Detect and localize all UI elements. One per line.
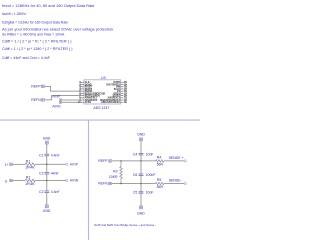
wire REFN row to C5 [140, 184, 142, 192]
port SENSE + [169, 156, 187, 162]
pin 12 [121, 99, 124, 101]
pin 5 [81, 90, 84, 92]
capacitor C6 [133, 173, 156, 177]
pin 8 [81, 97, 84, 99]
pin 10 [81, 101, 84, 103]
svg-text:U3: U3 [101, 76, 106, 80]
svg-text:10KR: 10KR [109, 175, 118, 179]
pin 17 [121, 88, 124, 90]
wire 3- to R2 [13, 180, 26, 182]
pin 7 [81, 95, 84, 97]
svg-text:10nF: 10nF [146, 153, 154, 157]
capacitor C5 [133, 191, 154, 195]
capacitor C2 [39, 190, 60, 194]
IC right pins [100, 82, 127, 105]
port REFP (bottom) [98, 159, 111, 163]
svg-text:fmod = 128KHz for 40, 80 and 1: fmod = 128KHz for 40, 80 and 160 Output … [2, 4, 95, 8]
wire C3 to row2 [46, 174, 48, 181]
wire 1+ to R1 [13, 163, 26, 165]
svg-text:1+: 1+ [5, 163, 9, 167]
divider vertical [88, 120, 90, 240]
resistor R2 [25, 176, 36, 186]
resistor R4 [156, 156, 164, 167]
svg-text:AINN: AINN [52, 104, 61, 108]
capacitor C4 [133, 153, 154, 157]
svg-text:AINP: AINP [52, 94, 61, 98]
port 3- [5, 179, 13, 183]
junction REFN/R3 [120, 183, 122, 185]
wire C5 to gnd [140, 193, 142, 206]
port REFN (top) [31, 98, 44, 102]
svg-text:GND: GND [43, 137, 51, 141]
svg-text:AINP: AINP [70, 162, 79, 166]
wire C6 to REFN row [140, 175, 142, 183]
wire R4 to SENSE+ [164, 160, 184, 162]
wire REFP to pin 5 [45, 86, 82, 91]
pin 16 [121, 90, 124, 92]
port AINP (circle) [66, 162, 79, 166]
svg-text:fcutoff = 1.28KHz: fcutoff = 1.28KHz [2, 12, 26, 16]
wire R5 to SENSE- [164, 183, 184, 185]
svg-text:AVSS: AVSS [85, 101, 92, 104]
wire AINN to pin 10 [62, 101, 81, 103]
wire REFP row [112, 160, 156, 162]
svg-text:REFP: REFP [31, 85, 41, 89]
wire REFN row [112, 183, 156, 185]
wire C2 to gnd [46, 193, 48, 205]
pin 18 [121, 86, 124, 88]
svg-text:GND: GND [43, 209, 51, 213]
capacitor C1 [39, 153, 60, 157]
port AINN (circle) [66, 179, 79, 183]
pin 20 [121, 81, 124, 83]
svg-text:56R: 56R [157, 162, 164, 166]
pin 2 [81, 84, 84, 86]
resistor R1 [25, 160, 36, 170]
port SENSE - [169, 178, 187, 184]
pin 6 [81, 92, 84, 94]
svg-text:R3: R3 [113, 169, 118, 173]
svg-text:R4: R4 [157, 156, 162, 160]
svg-text:C1: C1 [39, 153, 44, 157]
svg-text:As per your information we sel: As per your information we select 20Vdc … [2, 28, 114, 32]
port REFN (bottom) [98, 182, 111, 186]
wire R1 to AINP [35, 163, 65, 165]
svg-text:REFP: REFP [98, 159, 108, 163]
svg-text:Cdiff = 44nF and Ccm = 4.4nF: Cdiff = 44nF and Ccm = 4.4nF [2, 56, 51, 60]
pin 1 [81, 81, 84, 83]
divider horizontal [0, 119, 200, 121]
svg-text:Cdiff = 1 / ( 2 * pi * 1280 *: Cdiff = 1 / ( 2 * pi * 1280 * ( 2 * RFIL… [2, 47, 73, 51]
junction row1/bus [46, 164, 48, 166]
resistor R5 [156, 178, 164, 189]
wire C4 to REFP row [140, 155, 142, 161]
junction REFN/bus [140, 183, 142, 185]
svg-text:So Rfilter = 1.4KOhms and Imax: So Rfilter = 1.4KOhms and Imax = 10mA. [2, 32, 65, 36]
ground GND top-left [43, 137, 51, 145]
svg-text:GND: GND [137, 132, 145, 136]
pin 14 [121, 95, 124, 97]
wire AINP to pin 9 [62, 99, 81, 101]
svg-text:C5: C5 [133, 191, 138, 195]
svg-text:REFN: REFN [98, 182, 108, 186]
svg-text:ADS 1247: ADS 1247 [93, 106, 109, 110]
wire R2 to AINN [35, 180, 65, 182]
pin 19 [121, 84, 124, 86]
ground GND bottom-left [43, 205, 51, 213]
svg-text:fcDigital = 1/16Hz for 160 Out: fcDigital = 1/16Hz for 160 Output Data R… [2, 21, 68, 25]
jumper J1 pin B [59, 101, 61, 103]
svg-text:100nF: 100nF [146, 173, 156, 177]
junction row2/bus [46, 180, 48, 182]
wire row2 to C2 [46, 181, 48, 192]
IC left pins [78, 82, 105, 105]
pin 4 [81, 88, 84, 90]
svg-text:AINN: AINN [70, 179, 79, 183]
svg-text:C4: C4 [133, 153, 138, 157]
svg-text:SENSE -: SENSE - [169, 178, 184, 182]
IC U3 body [84, 76, 121, 110]
svg-text:R5: R5 [157, 178, 162, 182]
svg-text:Cdiff = 1 / ( 2 * pi * fC * (: Cdiff = 1 / ( 2 * pi * fC * ( 2 * RFILTE… [2, 40, 72, 44]
pin 15 [121, 92, 124, 94]
svg-text:C2: C2 [39, 190, 44, 194]
svg-text:SENSE +: SENSE + [169, 156, 184, 160]
svg-text:10nF: 10nF [146, 191, 154, 195]
svg-text:4.4nF: 4.4nF [51, 153, 60, 157]
port 1+ [5, 163, 13, 167]
pin 3 [81, 86, 84, 88]
svg-text:C6: C6 [133, 173, 138, 177]
svg-text:RefP and RefN from Bridge Sens: RefP and RefN from Bridge Sense + and Se… [94, 223, 156, 227]
wire row1 to C3 [46, 164, 48, 172]
svg-text:1R4K: 1R4K [25, 182, 36, 186]
wire gnd to C4 [140, 141, 142, 154]
port REFP (top) [31, 85, 44, 89]
svg-text:1R4K: 1R4K [25, 166, 36, 170]
ground GND bottom-right [137, 206, 145, 215]
pin 11 [121, 101, 124, 103]
wire gnd to C1 [46, 144, 48, 154]
jumper J1 pin A [59, 99, 61, 101]
svg-text:44nF: 44nF [51, 172, 59, 176]
resistor R3 (vertical) [109, 161, 122, 184]
svg-text:4.4nF: 4.4nF [51, 190, 60, 194]
pin 13 [121, 97, 124, 99]
svg-text:C3: C3 [39, 172, 44, 176]
junction REFP/bus [140, 160, 142, 162]
capacitor C3 [39, 172, 59, 176]
wire REFN to pin 7 [45, 96, 82, 100]
svg-text:REFN: REFN [31, 98, 41, 102]
junction REFP/R3 [120, 160, 122, 162]
ground GND top-right [137, 132, 145, 140]
svg-text:AIN1/GPIO1/IEXC: AIN1/GPIO1/IEXC [101, 101, 120, 104]
wire C1 to row1 [46, 156, 48, 165]
svg-text:GND: GND [137, 211, 145, 215]
pin 9 [81, 99, 84, 101]
svg-text:56R: 56R [157, 185, 164, 189]
wire REFP row to C6 [140, 161, 142, 174]
